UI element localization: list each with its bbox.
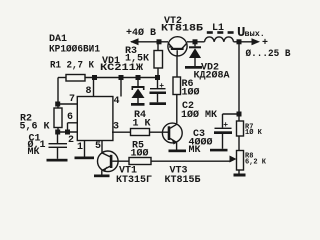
svg-text:7: 7	[69, 94, 75, 105]
svg-text:вых.: вых.	[245, 29, 265, 39]
svg-text:КД2Ø8А: КД2Ø8А	[194, 69, 230, 81]
svg-text:КТ315Г: КТ315Г	[116, 175, 152, 186]
svg-text:1: 1	[77, 142, 83, 153]
svg-text:КС211Ж: КС211Ж	[100, 63, 143, 74]
svg-text:5,6 К: 5,6 К	[20, 122, 50, 133]
svg-text:L1: L1	[212, 23, 224, 34]
svg-text:+: +	[223, 121, 228, 130]
svg-text:4: 4	[114, 96, 120, 107]
svg-text:1ØØ: 1ØØ	[182, 87, 200, 99]
svg-text:+: +	[159, 82, 164, 91]
svg-text:5: 5	[95, 141, 101, 152]
svg-text:Ø...25 В: Ø...25 В	[246, 48, 291, 60]
svg-text:6: 6	[67, 112, 73, 123]
svg-text:R1 2,7 К: R1 2,7 К	[50, 61, 94, 72]
svg-text:КР1ØØ6ВИ1: КР1ØØ6ВИ1	[49, 44, 100, 56]
svg-text:DA1: DA1	[49, 34, 67, 45]
svg-text:1,5К: 1,5К	[125, 54, 149, 65]
svg-text:КТ818Б: КТ818Б	[161, 24, 203, 35]
svg-text:+: +	[262, 38, 268, 49]
svg-text:1ØØ МК: 1ØØ МК	[181, 109, 217, 121]
svg-text:1 К: 1 К	[133, 119, 151, 130]
svg-text:МК: МК	[189, 145, 201, 156]
svg-text:3: 3	[113, 122, 119, 133]
svg-text:КТ815Б: КТ815Б	[165, 175, 201, 186]
svg-text:1ØØ: 1ØØ	[131, 148, 149, 160]
svg-text:6,2 К: 6,2 К	[245, 158, 267, 166]
svg-text:8: 8	[86, 86, 92, 97]
svg-text:МК: МК	[28, 147, 40, 158]
svg-text:2: 2	[68, 135, 74, 146]
svg-text:+4Ø В: +4Ø В	[126, 27, 156, 39]
svg-text:1Ø К: 1Ø К	[245, 128, 263, 137]
